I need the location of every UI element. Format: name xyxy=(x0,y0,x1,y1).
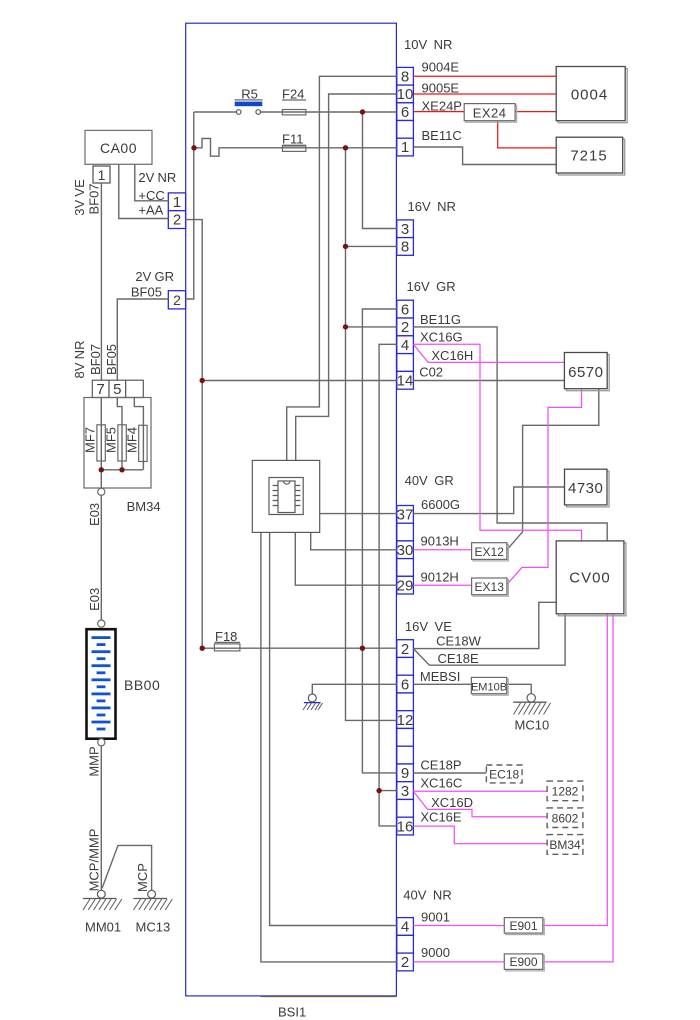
wire IC to pin 29 xyxy=(295,532,397,585)
svg-text:EM10B: EM10B xyxy=(471,681,507,693)
svg-text:40V GR: 40V GR xyxy=(405,473,454,488)
wire XC16G to CV00 xyxy=(413,344,581,541)
svg-text:XE24P: XE24P xyxy=(422,98,462,113)
wire 6600G to 4730 xyxy=(413,487,564,514)
svg-text:F11: F11 xyxy=(282,132,303,147)
svg-text:MEBSI: MEBSI xyxy=(420,669,460,684)
wire R5 to pin 6 (10V NR) xyxy=(194,111,397,113)
wire BF07 from CA00 pin1 to BM34 pin 7 xyxy=(100,183,102,380)
ground MC10 xyxy=(513,694,550,733)
wire pin 4 (16V GR) bus down to pin 16 xyxy=(379,344,397,826)
svg-text:4730: 4730 xyxy=(568,480,603,497)
svg-text:XC16D: XC16D xyxy=(431,795,473,810)
pin numbers 16V GR xyxy=(397,301,414,389)
svg-text:XC16G: XC16G xyxy=(420,330,463,345)
wire +AA bus down xyxy=(186,220,203,649)
svg-text:E03: E03 xyxy=(87,503,102,526)
splice EM10B xyxy=(471,677,508,695)
svg-text:30: 30 xyxy=(397,542,414,559)
wire XC16D to 8602 xyxy=(413,791,547,817)
svg-text:6: 6 xyxy=(401,676,409,693)
svg-text:0004: 0004 xyxy=(571,86,608,103)
connector +CC/+AA pins on ECU left edge xyxy=(168,193,185,229)
component CV00 xyxy=(556,541,626,616)
wire XC16H to 6570 xyxy=(413,344,564,362)
svg-text:BSI1: BSI1 xyxy=(278,1005,306,1020)
svg-text:BE11C: BE11C xyxy=(422,128,462,143)
svg-text:16V VE: 16V VE xyxy=(405,619,452,634)
component 4730 xyxy=(565,469,610,507)
svg-text:9005E: 9005E xyxy=(422,81,460,96)
pin numbers 7 and 5 xyxy=(96,381,121,398)
connector pin 1 of CA00 xyxy=(93,166,110,183)
svg-text:BB00: BB00 xyxy=(124,677,160,693)
wire CE18W to CV00 xyxy=(413,602,556,648)
wire IC to pin 4 (40V NR) xyxy=(270,532,397,925)
wire branch to pin 3 (16V VE group) xyxy=(379,790,397,792)
svg-text:XC16H: XC16H xyxy=(431,348,473,363)
svg-text:9001: 9001 xyxy=(421,910,450,925)
fuse box BM34 body xyxy=(84,398,151,489)
wire R5 branch down to BF05 pin 2 xyxy=(186,112,194,299)
svg-text:MMP: MMP xyxy=(87,746,102,776)
splice EX13 xyxy=(472,578,509,596)
svg-text:R5: R5 xyxy=(241,86,258,101)
connector group 40V NR xyxy=(397,918,414,971)
wire XC16E to BM34 xyxy=(413,826,547,844)
svg-text:MF4: MF4 xyxy=(125,427,140,453)
svg-text:4: 4 xyxy=(401,919,409,936)
svg-text:F18: F18 xyxy=(215,629,237,644)
wire bus C (pin1/pin8/pin2/pin12) xyxy=(346,148,397,721)
svg-text:4: 4 xyxy=(401,337,409,354)
pin numbers 10V NR xyxy=(397,68,414,156)
wire IC to pin 37 xyxy=(320,513,397,515)
svg-text:40V NR: 40V NR xyxy=(403,888,451,903)
svg-text:EX24: EX24 xyxy=(473,105,507,120)
svg-text:BE11G: BE11G xyxy=(420,312,461,327)
svg-text:C02: C02 xyxy=(419,365,443,380)
wire F11 branch with breaker step to pin 1 xyxy=(194,139,397,157)
svg-text:9012H: 9012H xyxy=(421,570,459,585)
node circle at BB00 - xyxy=(98,739,105,746)
svg-text:BF05: BF05 xyxy=(104,344,119,375)
wire 9000 to E900 and CV00 xyxy=(413,614,613,962)
svg-text:9: 9 xyxy=(401,765,409,782)
svg-text:MM01: MM01 xyxy=(85,920,121,935)
svg-text:3: 3 xyxy=(401,783,409,800)
connector BF05 pin 2 on ECU left edge xyxy=(168,291,185,309)
wire CE18E to CV00 xyxy=(413,614,565,665)
svg-text:CE18W: CE18W xyxy=(436,634,482,649)
svg-text:10V NR: 10V NR xyxy=(404,37,452,52)
svg-text:EX12: EX12 xyxy=(475,545,505,559)
svg-text:1: 1 xyxy=(401,139,409,156)
fuse box BM34 connector cells 7/5 xyxy=(92,380,143,397)
splice EX12 xyxy=(472,543,509,561)
svg-text:MF5: MF5 xyxy=(104,427,119,453)
svg-text:9004E: 9004E xyxy=(422,59,460,74)
svg-text:1: 1 xyxy=(98,167,106,183)
wire 9004E xyxy=(413,75,556,77)
splice E900 xyxy=(504,954,544,971)
svg-text:2: 2 xyxy=(173,292,181,308)
wire 6570 to EX12 xyxy=(507,389,599,550)
pin numbers 40V GR xyxy=(397,507,414,595)
wire branch to pin 8 (16V NR) xyxy=(346,245,397,247)
pin numbers +CC/+AA xyxy=(173,194,181,229)
svg-text:MC13: MC13 xyxy=(136,920,171,935)
wire branch to pin 2 BE11G xyxy=(346,326,397,328)
microcontroller U1 inside BSI xyxy=(252,460,319,532)
svg-text:12: 12 xyxy=(397,712,414,729)
wire labels right side xyxy=(419,59,481,960)
fuse MF4 xyxy=(139,425,147,461)
wire MEBSI to EM10B xyxy=(413,683,471,685)
svg-text:EX13: EX13 xyxy=(475,580,505,594)
wire F18 row to pin 2 (16V VE) xyxy=(202,647,397,649)
svg-text:8602: 8602 xyxy=(552,811,579,825)
svg-text:3: 3 xyxy=(401,221,409,238)
pin numbers 16V VE xyxy=(397,641,414,836)
svg-text:2V GR: 2V GR xyxy=(135,269,174,284)
svg-text:14: 14 xyxy=(397,373,414,390)
wire +AA from CA00 to pin 2 xyxy=(119,164,169,218)
svg-text:3V VE: 3V VE xyxy=(72,179,87,216)
svg-text:MF7: MF7 xyxy=(83,427,98,453)
wire C02 to pin 14 xyxy=(202,380,397,382)
svg-text:7215: 7215 xyxy=(570,148,607,165)
svg-text:16V NR: 16V NR xyxy=(408,199,456,214)
wire pin 6 (16V GR) bus down to pin 9 xyxy=(362,309,396,773)
fuse F11 xyxy=(282,132,306,152)
wire XC16C to 1282 xyxy=(413,790,547,792)
fuse F24 xyxy=(282,86,306,115)
svg-text:8: 8 xyxy=(401,68,409,85)
svg-text:+AA: +AA xyxy=(138,203,163,218)
ignition switch CA00 xyxy=(85,130,152,164)
wire BF05 from pin 2 to BM34 pin 5 xyxy=(117,299,168,380)
svg-text:+CC: +CC xyxy=(138,188,164,203)
svg-text:29: 29 xyxy=(397,577,414,594)
svg-text:5: 5 xyxy=(113,381,121,398)
svg-text:6: 6 xyxy=(401,301,409,318)
pin numbers 16V NR xyxy=(401,221,409,256)
svg-text:CV00: CV00 xyxy=(569,570,611,587)
wire BE11C to 7215 xyxy=(413,147,556,165)
svg-text:BF07: BF07 xyxy=(88,344,103,375)
svg-text:MCP: MCP xyxy=(135,863,150,892)
wire through MF4 xyxy=(134,398,143,470)
wire XE24P to EX24 and 0004 xyxy=(413,111,556,113)
wire 9001 to E901 and CV00 xyxy=(413,614,607,926)
battery BB00 xyxy=(87,629,161,739)
wire 9013H to EX12 xyxy=(413,549,471,551)
wire IC to pin 2 (40V NR) xyxy=(261,532,397,962)
svg-text:CA00: CA00 xyxy=(100,140,137,156)
svg-text:10: 10 xyxy=(397,86,414,103)
junction dots xyxy=(191,109,381,793)
wire branch MCP to ground MC13 xyxy=(102,845,152,890)
svg-text:37: 37 xyxy=(397,507,414,524)
wire 6570 to EX13 xyxy=(507,389,582,585)
svg-text:7: 7 xyxy=(96,381,104,398)
wire bus to pin 3 (16V NR) xyxy=(363,112,397,229)
svg-text:MC10: MC10 xyxy=(515,718,550,733)
connector group 40V GR xyxy=(397,506,414,595)
wire pin 8 9004E to IC xyxy=(287,76,397,460)
fuse F18 xyxy=(214,629,240,651)
connector group 16V VE xyxy=(397,640,414,835)
svg-text:16: 16 xyxy=(397,818,414,835)
svg-text:XC16E: XC16E xyxy=(420,810,462,825)
svg-text:16V GR: 16V GR xyxy=(407,279,456,294)
wire EX24 to 7215 xyxy=(498,121,557,148)
svg-text:BF07: BF07 xyxy=(87,183,102,214)
svg-text:2: 2 xyxy=(401,954,409,971)
splice E901 xyxy=(504,918,544,935)
wire 9012H to EX13 xyxy=(413,584,471,586)
wire fuse common bus xyxy=(101,470,143,488)
node 8602 (dashed) xyxy=(547,808,583,828)
svg-text:F24: F24 xyxy=(282,86,304,101)
svg-text:XC16C: XC16C xyxy=(420,776,462,791)
svg-text:E901: E901 xyxy=(509,919,537,933)
fuse MF5 xyxy=(118,425,126,461)
node circle at BM34 output xyxy=(98,488,105,495)
wire C02 to 6570 xyxy=(413,380,564,382)
svg-text:1282: 1282 xyxy=(552,785,579,799)
svg-text:EC18: EC18 xyxy=(489,768,519,782)
wire BE11G to CV00 xyxy=(413,327,607,541)
svg-text:2: 2 xyxy=(173,212,181,229)
splice EX24 xyxy=(464,104,516,123)
svg-text:2V NR: 2V NR xyxy=(138,170,176,185)
connector group 16V NR xyxy=(397,220,414,255)
wire +CC from CA00 to pin 1 xyxy=(135,164,169,201)
svg-text:6: 6 xyxy=(401,104,409,121)
svg-text:BF05: BF05 xyxy=(131,284,162,299)
ECU BSI1 box xyxy=(186,23,397,996)
svg-text:6570: 6570 xyxy=(568,364,603,381)
svg-text:E03: E03 xyxy=(87,588,102,611)
component 6570 xyxy=(564,353,609,391)
wire pin 6 MEBSI to internal ground xyxy=(312,684,397,694)
svg-text:8: 8 xyxy=(401,239,409,256)
wire EM10B to ground MC10 xyxy=(507,684,532,693)
ground MC13 xyxy=(133,890,172,934)
node circle at BB00 + xyxy=(98,620,105,627)
ground MM01 xyxy=(83,890,122,934)
component 7215 xyxy=(556,137,625,175)
svg-text:BM34: BM34 xyxy=(127,499,161,514)
wire through MF7 xyxy=(100,398,102,470)
svg-text:E900: E900 xyxy=(509,955,537,969)
node 1282 (dashed) xyxy=(547,781,583,801)
svg-text:8V NR: 8V NR xyxy=(72,341,87,379)
svg-text:9013H: 9013H xyxy=(421,534,459,549)
svg-text:2: 2 xyxy=(401,319,409,336)
wire 9005E xyxy=(413,93,556,95)
connector group 16V GR xyxy=(397,300,414,389)
fuse MF7 xyxy=(97,425,105,461)
svg-text:CE18P: CE18P xyxy=(420,758,461,773)
connector group 10V NR xyxy=(397,67,414,155)
wire pin 10 9005E to IC xyxy=(296,94,397,460)
svg-text:2: 2 xyxy=(401,641,409,658)
junction dots in BM34 xyxy=(99,467,125,472)
wire through MF5 xyxy=(117,398,122,470)
internal ground (BSI) xyxy=(303,694,323,710)
wire IC to pin 30 xyxy=(311,532,397,549)
svg-text:1: 1 xyxy=(173,194,181,211)
wire CE18P to EC18 xyxy=(413,772,486,774)
component 0004 xyxy=(556,67,627,123)
svg-text:CE18E: CE18E xyxy=(438,651,480,666)
node BM34 (dashed) xyxy=(547,835,583,855)
wire E03 battery cable xyxy=(100,495,102,620)
wire MMP to ground MM01 xyxy=(100,746,102,890)
node EC18 (dashed) xyxy=(486,765,522,783)
pin numbers 40V NR xyxy=(401,919,409,972)
relay R5 xyxy=(235,86,263,114)
svg-text:9000: 9000 xyxy=(421,945,450,960)
svg-text:6600G: 6600G xyxy=(421,497,460,512)
svg-text:MCP/MMP: MCP/MMP xyxy=(87,829,102,892)
svg-text:BM34: BM34 xyxy=(549,838,581,852)
